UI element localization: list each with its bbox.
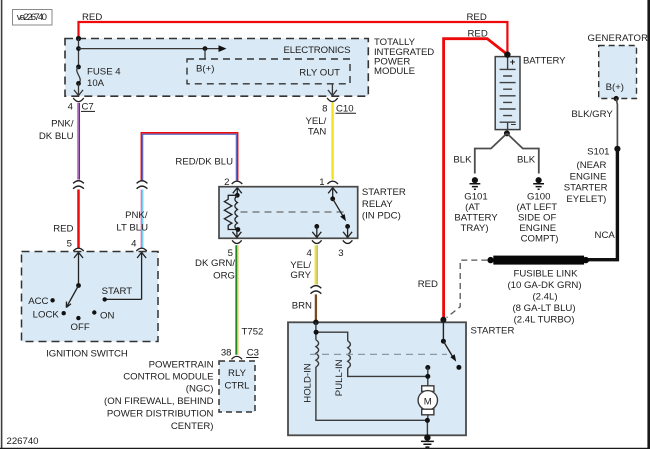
svg-text:BLK/GRY: BLK/GRY [571, 109, 613, 120]
svg-text:CONTROL MODULE: CONTROL MODULE [123, 372, 213, 383]
connector relay pin 4 cup [312, 240, 322, 243]
svg-text:4: 4 [306, 248, 312, 259]
svg-text:BATTERY: BATTERY [454, 213, 498, 224]
label fusible link description [507, 269, 581, 326]
connector relay pin 1 cap [327, 181, 338, 184]
svg-text:BRN: BRN [292, 301, 312, 312]
pin C10-8 output arrow [328, 84, 337, 96]
svg-text:OFF: OFF [71, 322, 90, 333]
page frame left border [1, 0, 3, 449]
svg-text:POWERTRAIN: POWERTRAIN [149, 359, 214, 370]
svg-text:START: START [102, 286, 133, 297]
page frame bottom border [0, 447, 650, 449]
svg-text:C7: C7 [82, 102, 94, 113]
node relay common contact [330, 196, 335, 201]
node solenoid fixed contact [425, 365, 430, 370]
svg-text:FUSIBLE LINK: FUSIBLE LINK [514, 269, 579, 280]
wire starter coil feed [316, 322, 348, 341]
inductor hold-in winding [316, 340, 319, 367]
connector C3 cap [221, 348, 259, 360]
svg-text:TAN: TAN [308, 126, 327, 137]
connector C7 cup [68, 98, 95, 113]
svg-text:STARTER: STARTER [362, 187, 406, 198]
pin relay 2 arrow [233, 188, 242, 196]
wire BLK/GRY [571, 99, 617, 147]
svg-text:4: 4 [68, 102, 74, 113]
svg-text:RELAY: RELAY [362, 199, 393, 210]
svg-text:MODULE: MODULE [374, 66, 415, 77]
pin ignition 4 arrow [137, 252, 146, 299]
svg-text:COMPT): COMPT) [521, 233, 559, 244]
connector C10 cup [322, 98, 356, 114]
svg-text:PNK/: PNK/ [125, 210, 148, 221]
connector ignition pin 4 cap [136, 248, 147, 251]
svg-text:ENGINE: ENGINE [519, 223, 556, 234]
svg-text:NCA: NCA [595, 230, 616, 241]
node B(+) branch junction [76, 46, 81, 51]
svg-text:ON: ON [100, 311, 114, 322]
svg-text:38: 38 [221, 348, 232, 359]
node battery positive junction [504, 51, 510, 57]
svg-text:YEL/: YEL/ [305, 116, 326, 127]
svg-text:POWER DISTRIBUTION: POWER DISTRIBUTION [107, 409, 214, 420]
resistor relay parallel resistor [224, 195, 238, 229]
svg-text:GRY: GRY [290, 270, 311, 281]
svg-text:B(+): B(+) [196, 64, 214, 75]
svg-text:BATTERY: BATTERY [523, 56, 566, 67]
fusible link FL1 [487, 256, 589, 265]
svg-text:(AT: (AT [465, 202, 480, 213]
diagram id box va226740 [13, 10, 53, 26]
svg-text:M: M [424, 397, 432, 408]
svg-text:va226740: va226740 [17, 12, 47, 23]
svg-text:RED: RED [53, 223, 73, 234]
node START contact [103, 297, 107, 301]
svg-text:S101: S101 [587, 146, 609, 157]
connector in-line splice (left) [73, 181, 84, 189]
node starter RED junction [440, 317, 446, 323]
svg-text:4: 4 [131, 239, 137, 250]
connector ignition pin 5 cap [73, 248, 84, 251]
svg-text:STARTER: STARTER [564, 183, 608, 194]
svg-text:FUSE 4: FUSE 4 [87, 66, 121, 77]
wire PNK/LT BLU [116, 190, 148, 250]
fuse F4 FUSE 4 10A [76, 65, 121, 90]
svg-text:RED: RED [468, 28, 488, 39]
pin relay 4 arrow [312, 226, 321, 237]
svg-text:G101: G101 [464, 192, 487, 203]
svg-text:(2.4L): (2.4L) [532, 292, 557, 303]
svg-text:G100: G100 [527, 192, 550, 203]
label PCM description [104, 359, 214, 432]
module box U2 PCM (dashed) [219, 361, 255, 412]
svg-text:LT BLU: LT BLU [116, 222, 148, 233]
wire pull-in to motor [348, 368, 428, 376]
node starter BRN junction [313, 320, 319, 326]
svg-text:RED: RED [467, 12, 487, 23]
svg-text:PNK/: PNK/ [51, 118, 74, 129]
sub-box electronics B(+)/RLY OUT (dashed) [187, 45, 351, 84]
connector in-line splice (brown) [311, 286, 322, 294]
wire BLK to G101 [475, 133, 507, 173]
node ON contact [92, 310, 96, 314]
svg-text:(10 GA-DK GRN): (10 GA-DK GRN) [507, 280, 581, 291]
wire BRN [292, 294, 316, 322]
node splice S101 [614, 146, 620, 152]
svg-text:(AT LEFT: (AT LEFT [516, 202, 557, 213]
node starter coil branch [314, 330, 319, 335]
node battery negative junction [504, 130, 510, 136]
battery B1 [495, 57, 520, 131]
wire DK GRN/ORG [195, 245, 263, 355]
wire starter internal dashed [310, 353, 447, 355]
ground starter motor ground [421, 434, 434, 447]
switch relay armature [333, 199, 344, 218]
svg-text:RLY OUT: RLY OUT [299, 68, 340, 79]
node relay NO contact pin 3 [345, 224, 350, 229]
connector in-line splice (middle) [137, 181, 148, 189]
wire PNK/DK BLU [39, 103, 79, 180]
svg-text:ENGINE: ENGINE [570, 172, 607, 183]
inductor relay coil [235, 196, 238, 230]
node relay coil bottom [236, 227, 241, 232]
svg-text:(2.4L TURBO): (2.4L TURBO) [514, 315, 575, 326]
svg-text:TRAY): TRAY) [460, 223, 488, 234]
node LOCK contact [62, 311, 66, 315]
svg-text:RED: RED [418, 279, 438, 290]
node relay coil top [235, 193, 240, 198]
svg-text:–: – [511, 119, 517, 130]
wire RED battery feed (top) [79, 22, 508, 55]
wire RED battery-to-starter [444, 39, 508, 320]
inductor pull-in winding [348, 341, 351, 368]
svg-text:C3: C3 [247, 348, 259, 359]
node motor ground junction [425, 418, 430, 423]
svg-text:STARTER: STARTER [471, 326, 515, 337]
node ignition rotor pivot [76, 283, 81, 288]
wire START feed [105, 298, 142, 300]
wire BLK to G100 [507, 133, 539, 173]
svg-text:5: 5 [67, 239, 72, 250]
svg-text:10A: 10A [87, 78, 105, 89]
wire relay internal dashed [241, 211, 344, 213]
wire internal TIPM feed [78, 39, 80, 67]
page frame right border [647, 0, 650, 449]
motor M starter motor [418, 386, 437, 415]
svg-text:ELECTRONICS: ELECTRONICS [284, 45, 351, 56]
svg-text:CTRL: CTRL [224, 380, 250, 391]
wire B(+) branch with arrow [79, 45, 227, 59]
label S101 description [564, 146, 610, 205]
svg-text:SIDE OF: SIDE OF [518, 213, 557, 224]
wire hold-in return [316, 367, 428, 420]
node ACC contact [50, 298, 54, 302]
node relay NC contact pin 4 [314, 224, 319, 229]
svg-text:(8 GA-LT BLU): (8 GA-LT BLU) [512, 303, 575, 314]
switch S1 ignition switch box (dashed) [22, 252, 159, 360]
wire contact to motor [427, 368, 429, 386]
wire YEL/GRY [290, 245, 317, 284]
svg-text:2: 2 [224, 177, 229, 188]
wire RED/DK BLU [141, 133, 237, 181]
pin relay 1 arrow [328, 188, 337, 199]
wire RED to ignition switch [53, 190, 78, 250]
svg-text:ACC: ACC [28, 296, 48, 307]
node OFF contact [76, 316, 80, 320]
svg-text:B(+): B(+) [606, 82, 624, 93]
svg-text:8: 8 [322, 103, 327, 114]
svg-text:RLY: RLY [228, 368, 247, 379]
svg-text:(IN PDC): (IN PDC) [362, 211, 401, 222]
connector relay pin 3 cup [343, 240, 353, 243]
node generator B+ terminal [614, 96, 619, 101]
svg-text:LOCK: LOCK [33, 309, 60, 320]
svg-text:GENERATOR: GENERATOR [588, 33, 649, 44]
ground G101 [454, 177, 498, 234]
svg-text:(ON FIREWALL, BEHIND: (ON FIREWALL, BEHIND [104, 396, 214, 407]
connector relay pin 5 cup [232, 240, 242, 243]
svg-text:IGNITION SWITCH: IGNITION SWITCH [46, 348, 128, 359]
svg-text:BLK: BLK [453, 155, 472, 166]
pin relay 5 arrow [232, 230, 241, 238]
motor box starter assembly [288, 322, 514, 435]
pin ignition 5 arrow [74, 252, 83, 285]
svg-text:DK BLU: DK BLU [39, 131, 74, 142]
wire NCA heavy battery cable [586, 150, 617, 260]
generator G box (dashed) [588, 33, 649, 99]
svg-text:PULL-IN: PULL-IN [334, 359, 345, 396]
relay K1 starter relay box [219, 187, 406, 239]
pin C7-4 output arrow [74, 83, 83, 95]
svg-text:DK GRN/: DK GRN/ [195, 258, 235, 269]
svg-text:3: 3 [338, 248, 343, 259]
node pull-in/motor junction [425, 374, 430, 379]
connector relay pin 2 cap [232, 181, 243, 184]
svg-text:226740: 226740 [7, 436, 39, 447]
svg-text:1: 1 [319, 177, 324, 188]
ground G100 [516, 177, 558, 244]
wire dashed fusible-link tie [447, 260, 488, 318]
svg-text:RED: RED [82, 12, 102, 23]
switch solenoid contact [442, 320, 444, 341]
svg-text:T752: T752 [242, 327, 264, 338]
svg-text:CENTER): CENTER) [171, 421, 214, 432]
svg-text:C10: C10 [336, 103, 354, 114]
svg-text:RED/DK BLU: RED/DK BLU [175, 157, 233, 168]
wire motor to ground [426, 415, 428, 436]
svg-text:BLK: BLK [517, 155, 536, 166]
svg-text:EYELET): EYELET) [566, 194, 606, 205]
svg-text:(NGC): (NGC) [186, 384, 214, 395]
pin relay 3 arrow [343, 226, 352, 237]
svg-text:(NEAR: (NEAR [577, 160, 607, 171]
module box U1 Totally Integrated Power Module (dashed) [65, 37, 434, 96]
svg-text:+: + [510, 57, 516, 68]
svg-text:ORG: ORG [213, 270, 235, 281]
switch rotor arm to LOCK [66, 286, 78, 308]
node TIPM feed junction [76, 36, 81, 41]
svg-text:HOLD-IN: HOLD-IN [303, 363, 314, 403]
wire YEL/TAN [305, 103, 332, 180]
